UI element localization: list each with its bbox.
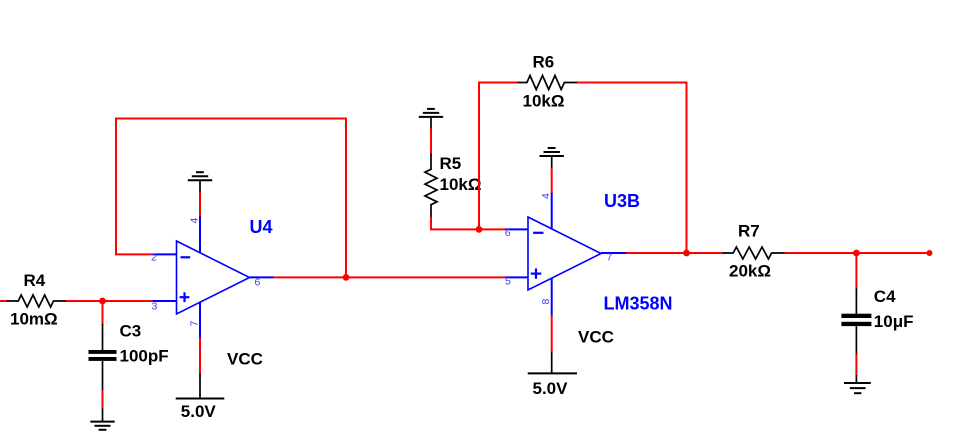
svg-text:100pF: 100pF	[120, 347, 169, 366]
wire R6 left segment	[478, 82, 518, 84]
wire pin2 row	[115, 253, 153, 255]
U4 minus sign	[181, 256, 191, 258]
svg-text:R7: R7	[738, 222, 760, 241]
wire node A down to C3	[102, 301, 104, 325]
U3B plus sign	[531, 268, 541, 278]
svg-text:R6: R6	[533, 53, 555, 72]
svg-text:VCC: VCC	[578, 328, 614, 347]
resistor R5	[425, 154, 437, 218]
pin 5 lead of U3B	[506, 276, 529, 278]
svg-text:5.0V: 5.0V	[181, 402, 217, 421]
wire feedback top horizontal	[115, 118, 347, 120]
svg-text:LM358N: LM358N	[604, 294, 673, 314]
capacitor C4	[841, 288, 871, 355]
wire R6 right segment	[577, 82, 688, 84]
wire node down to C4	[855, 253, 857, 289]
svg-text:5.0V: 5.0V	[533, 379, 569, 398]
ground below C3	[90, 408, 114, 430]
wire ground to pin 4	[199, 192, 201, 217]
resistor R6	[517, 76, 577, 90]
ground above U4	[188, 172, 212, 192]
pin 6 lead of U3B	[506, 228, 529, 230]
svg-text:U3B: U3B	[604, 191, 640, 211]
svg-text:7: 7	[607, 252, 613, 264]
wire R4 to node A (plus input net)	[66, 300, 153, 302]
wire feedback left vertical (node to pin 2)	[115, 118, 117, 255]
wire pin 7 to VCC supply	[199, 338, 201, 375]
wire U3B output to R7	[626, 252, 723, 254]
ground above U3B	[540, 148, 564, 169]
resistor R7	[723, 247, 785, 259]
pin 8 lead of U3B	[551, 278, 553, 316]
op-amp U4 triangle	[177, 241, 250, 314]
wire input from left edge to R4	[0, 300, 8, 302]
svg-text:U4: U4	[250, 217, 273, 237]
ground below C4	[844, 375, 871, 393]
svg-text:10mΩ: 10mΩ	[10, 310, 58, 329]
svg-text:C3: C3	[120, 322, 142, 341]
svg-text:8: 8	[540, 299, 552, 305]
open terminal output node	[926, 250, 932, 256]
wire C3 to ground	[102, 390, 104, 409]
svg-text:4: 4	[540, 193, 552, 199]
wire ground to U3B pin 4	[551, 168, 553, 194]
wire ground to R5	[430, 128, 432, 155]
pin 4 lead of U4	[199, 216, 201, 254]
wire R7 to output node	[785, 252, 930, 254]
svg-text:6: 6	[255, 277, 261, 289]
svg-text:C4: C4	[874, 287, 896, 306]
svg-text:R5: R5	[440, 154, 462, 173]
svg-text:10kΩ: 10kΩ	[523, 92, 565, 111]
op-amp U3B triangle	[528, 217, 601, 290]
junction node A (R4/C3)	[99, 298, 106, 305]
pin 4 lead of U3B	[551, 193, 553, 230]
wire feedback right vertical to output	[345, 118, 347, 278]
svg-text:20kΩ: 20kΩ	[729, 262, 771, 281]
wire R6 down to U3B output	[686, 83, 688, 254]
power supply VCC 5.0V (U4)	[176, 374, 225, 399]
svg-text:6: 6	[505, 227, 511, 239]
junction R5/R6/pin6	[476, 226, 483, 233]
junction R7/C4	[853, 250, 860, 257]
power supply VCC 5.0V (U3B)	[528, 352, 577, 374]
pin 3 lead of U4	[153, 300, 177, 302]
pin 2 lead of U4	[153, 253, 177, 255]
svg-text:10μF: 10μF	[874, 312, 914, 331]
resistor R4	[7, 295, 66, 307]
svg-text:VCC: VCC	[227, 350, 263, 369]
svg-text:R4: R4	[24, 271, 46, 290]
junction U3B output / R6 feedback	[683, 250, 690, 257]
wire C4 to ground	[855, 354, 857, 376]
pin 7 lead of U4	[199, 302, 201, 339]
U4 plus sign	[180, 292, 190, 302]
svg-text:5: 5	[505, 276, 511, 288]
svg-text:10kΩ: 10kΩ	[440, 175, 482, 194]
ground above R5	[419, 109, 443, 129]
junction U4 output / feedback	[343, 274, 350, 281]
wire pin 8 to VCC supply	[551, 315, 553, 353]
pin 7 lead of U3B output	[601, 252, 626, 254]
U3B minus sign	[533, 232, 543, 234]
capacitor C3	[89, 324, 117, 391]
pin 6 lead of U4 output	[250, 276, 274, 278]
svg-text:2: 2	[151, 252, 157, 264]
svg-text:4: 4	[189, 218, 201, 224]
wire R5 to minus-input row	[431, 217, 506, 230]
wire U4 output to U3B plus input	[274, 276, 506, 278]
wire junction up to R6	[478, 82, 480, 231]
svg-text:7: 7	[189, 321, 201, 327]
svg-text:3: 3	[152, 301, 158, 313]
